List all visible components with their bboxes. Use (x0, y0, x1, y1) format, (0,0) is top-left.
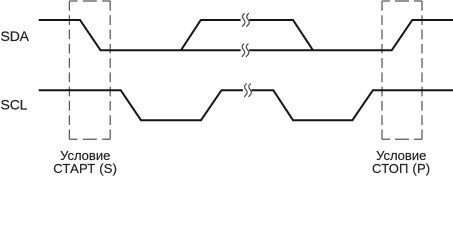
svg-text:SCL: SCL (1, 96, 28, 112)
wire: SCL trace right part (high after break, fall, low, rise, high to edge) (251, 90, 453, 120)
svg-text:СТАРТ (S): СТАРТ (S) (53, 161, 117, 176)
svg-text:SDA: SDA (1, 28, 30, 44)
wire: SDA low baseline after break, STOP rise, high to right edge (249, 20, 453, 50)
wire: SCL trace left part (high, fall, low, rise, high to break) (39, 90, 243, 120)
dashed box: START condition window (69, 1, 110, 139)
wire: SDA data pulse rising edge and top (to break) (181, 20, 241, 50)
wire: SDA data pulse top after break and falling edge (249, 20, 313, 50)
break marks on SCL high (245, 84, 252, 97)
break marks on SDA low baseline (242, 44, 249, 57)
wire: SDA trace (high, START fall, low baseline to break) (39, 20, 241, 50)
break marks on SDA pulse top (242, 14, 249, 27)
dashed box: STOP condition window (382, 1, 422, 139)
svg-text:СТОП (Р): СТОП (Р) (372, 161, 430, 176)
